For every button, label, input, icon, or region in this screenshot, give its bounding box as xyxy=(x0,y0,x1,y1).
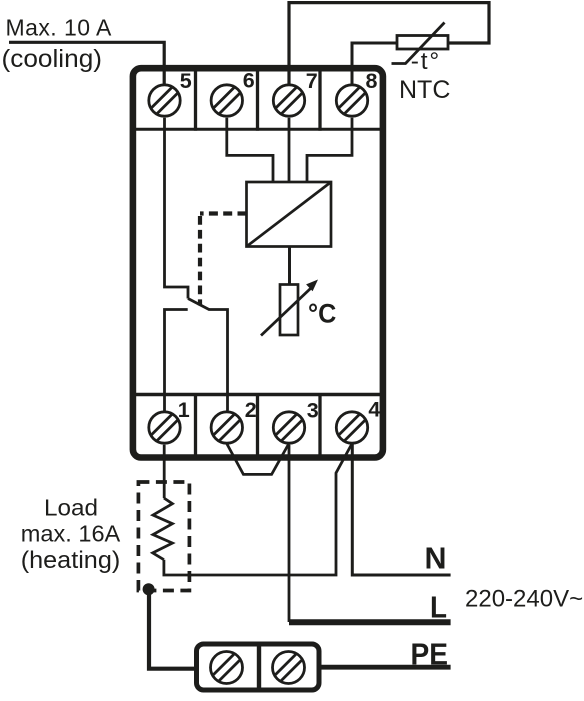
wire: terminal 5 down to contact xyxy=(165,118,189,299)
dashed actuator link from module to contact xyxy=(200,211,247,215)
wire: terminal 7 down to control module xyxy=(288,118,291,183)
svg-text:(cooling): (cooling) xyxy=(2,45,103,73)
terminal 3 xyxy=(273,398,318,443)
label: cooling circuit rating "Max. 10 A (cooling)" xyxy=(2,15,113,73)
svg-text:4: 4 xyxy=(368,398,380,422)
thermistor RT1 (NTC sensor) body xyxy=(397,36,448,50)
wire: terminal 3 down to L xyxy=(288,445,291,622)
svg-text:220-240V~: 220-240V~ xyxy=(465,586,583,613)
wire: contact left side to terminal 1 xyxy=(165,310,188,411)
wire: terminal 4 down to N (right segment) xyxy=(352,444,450,576)
svg-text:PE: PE xyxy=(411,636,449,671)
svg-text:Max. 10 A: Max. 10 A xyxy=(6,15,113,41)
PE terminal block xyxy=(197,644,320,690)
wire: terminal 1 down to load resistor xyxy=(163,445,166,498)
svg-text:(heating): (heating) xyxy=(21,547,121,574)
bottom terminal row separator line xyxy=(136,393,380,396)
relay contact S1 blade xyxy=(188,299,210,310)
label: load rating "Load max. 16A (heating)" xyxy=(21,494,121,574)
terminal 2 xyxy=(211,398,257,443)
top terminal row separator line xyxy=(136,128,380,131)
svg-text:5: 5 xyxy=(180,69,192,93)
terminal 7 xyxy=(273,69,317,116)
divider between terminals 5 and 6 xyxy=(194,71,197,131)
control module U1 (electronic unit box with diagonal) xyxy=(247,182,332,247)
terminal 8 xyxy=(336,69,377,116)
wire: terminal 8 up to NTC left side xyxy=(352,43,398,84)
PE block divider xyxy=(257,644,261,690)
terminal 6 xyxy=(211,69,255,117)
svg-text:L: L xyxy=(430,589,447,624)
svg-text:2: 2 xyxy=(245,398,257,422)
divider between terminals 3 and 4 xyxy=(318,393,321,455)
junction dot: load to PE tap xyxy=(143,583,155,595)
PE line xyxy=(321,665,451,670)
wire: junction dot down to PE terminal block xyxy=(149,586,196,669)
divider between terminals 6 and 7 xyxy=(256,71,259,131)
svg-text:NTC: NTC xyxy=(399,76,450,104)
load enclosure dashed box xyxy=(138,482,189,591)
terminal 1 xyxy=(149,398,190,443)
L line xyxy=(289,619,451,625)
wire: load bottom to terminal 4 (neutral left segment) xyxy=(164,445,352,576)
svg-text:3: 3 xyxy=(307,398,319,422)
wire: contact right side to terminal 2 xyxy=(209,310,228,411)
PE screw terminal right xyxy=(273,652,305,684)
svg-text:8: 8 xyxy=(366,69,378,93)
wire: cooling feed from label to terminal 5 xyxy=(9,42,164,84)
wire: module to setpoint potentiometer xyxy=(288,247,291,286)
divider between terminals 1 and 2 xyxy=(194,393,197,455)
divider between terminals 2 and 3 xyxy=(256,393,259,455)
svg-text:Load: Load xyxy=(44,494,98,520)
svg-text:1: 1 xyxy=(178,398,190,422)
resistor R1 (heating load) zigzag xyxy=(153,498,173,560)
wire: terminal 7 up and over to NTC right side xyxy=(289,3,489,84)
terminal 5 xyxy=(149,69,192,116)
divider between terminals 7 and 8 xyxy=(318,71,321,131)
jumper: terminal 2 to terminal 3 xyxy=(227,444,289,475)
potentiometer adjustment arrow xyxy=(261,289,311,336)
wire: terminal 8 down to control module xyxy=(307,118,352,183)
terminal 4 xyxy=(336,398,380,444)
wire: terminal 6 down to control module xyxy=(227,118,273,183)
svg-text:-t°: -t° xyxy=(411,48,441,75)
svg-text:N: N xyxy=(425,540,447,575)
thermistor strike line xyxy=(392,23,445,64)
PE screw terminal left xyxy=(211,652,243,684)
potentiometer RP1: temperature setpoint body xyxy=(280,285,298,336)
device body: thermostat module outline xyxy=(133,68,383,457)
svg-text:max. 16A: max. 16A xyxy=(21,520,121,546)
svg-text:7: 7 xyxy=(306,69,318,93)
svg-text:6: 6 xyxy=(243,69,255,93)
svg-text:°C: °C xyxy=(308,299,336,329)
